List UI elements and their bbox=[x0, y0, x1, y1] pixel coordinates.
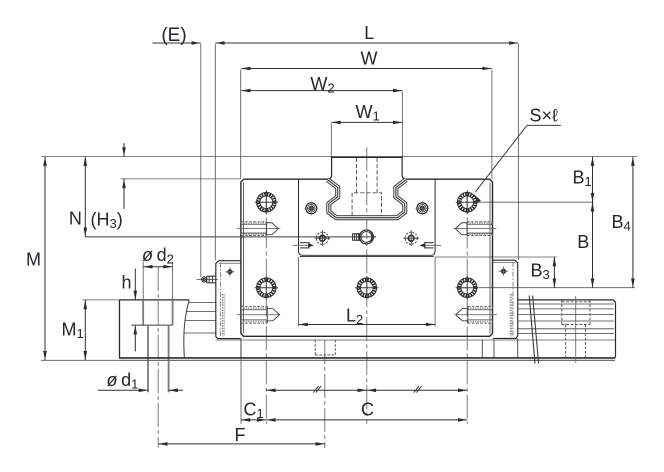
svg-text:L: L bbox=[364, 23, 374, 43]
tapped mounting hole SxL #3 bbox=[255, 276, 278, 299]
rail section: right side bbox=[402, 157, 406, 179]
extension line: W1/W2 right at rail edge bbox=[401, 92, 403, 157]
dimension M line bbox=[43, 157, 47, 361]
svg-text:F: F bbox=[235, 425, 246, 445]
side view: rail left end bbox=[119, 300, 121, 359]
side view: grease nipple left end bbox=[197, 276, 218, 283]
dimension C/2 right segment bbox=[367, 389, 467, 393]
second rail hole (hidden) under block bbox=[315, 340, 335, 355]
extension line: B/B4 bottom hole row bbox=[479, 287, 635, 289]
extension line: B3 top bbox=[436, 256, 557, 258]
extension line: base bottom (M/M1 bottom) bbox=[41, 359, 615, 361]
svg-text:(E): (E) bbox=[161, 25, 186, 46]
extension line: hole column right centreline bbox=[466, 191, 468, 424]
side view: left end plate seal texture bbox=[223, 294, 225, 336]
dimension d2 line bbox=[143, 265, 172, 269]
side view: right end plate outline bbox=[493, 260, 518, 338]
dimension d1 arrows bbox=[98, 389, 183, 393]
piping-port screw middle row #1 bbox=[315, 230, 331, 246]
centreline: rail axis bbox=[366, 147, 368, 424]
dimension h arrows bbox=[134, 269, 138, 352]
extension line: hole column left centreline bbox=[265, 191, 267, 424]
extension line: (E) at nipple tip bbox=[200, 44, 202, 277]
equality tick marks right bbox=[414, 386, 422, 392]
side view: left end plate screw (diamond) bbox=[225, 267, 234, 276]
plan view: block inner edge left bbox=[242, 183, 244, 334]
rail section: top surface bbox=[331, 156, 403, 158]
rail section: hidden bolt hole d1 right bbox=[376, 158, 378, 193]
base band: divider under right plate 1 bbox=[481, 340, 483, 358]
leader S x l bbox=[472, 125, 561, 202]
plan view: recess bottom line 2 bbox=[300, 255, 434, 257]
dimension C line bbox=[266, 418, 467, 422]
extension line: rail top at section (M1 top) bbox=[83, 299, 120, 301]
piping-port screw middle row #2 bbox=[403, 230, 419, 246]
base band: divider at right plate edge bbox=[517, 338, 519, 358]
extension line: N bottom / grease nipple centre line bbox=[85, 236, 376, 238]
rail section: left side bbox=[327, 157, 331, 179]
extension line: block-top plane (H3 bottom) bbox=[121, 178, 241, 180]
extension line: rail-top datum plane bbox=[41, 156, 637, 158]
svg-text:W: W bbox=[361, 49, 378, 69]
dimension L2 line bbox=[299, 323, 436, 327]
dimension (E) line bbox=[153, 41, 201, 45]
dimension W2 line bbox=[241, 89, 402, 93]
extension line: L right bbox=[517, 44, 519, 260]
section hole: counterbore d2 walls bbox=[143, 262, 172, 325]
extension line: block left edge to C1 bbox=[240, 339, 242, 424]
rail section: hidden bolt hole d1 left bbox=[356, 158, 358, 193]
extension line: B1 bottom hole row bbox=[479, 201, 594, 203]
dimension F line bbox=[158, 442, 325, 446]
extension line: W right bbox=[491, 70, 493, 179]
svg-text:(H3): (H3) bbox=[91, 209, 123, 231]
dimension M1 line bbox=[84, 300, 88, 360]
svg-text:h: h bbox=[121, 273, 131, 293]
dimension C1 line bbox=[241, 418, 266, 422]
dimension L line bbox=[215, 41, 518, 45]
grease nipple plan: head bbox=[359, 230, 373, 244]
side view: left end plate hidden lip bbox=[220, 263, 222, 338]
side port lower right (hidden) bbox=[455, 306, 498, 323]
svg-text:C: C bbox=[361, 400, 374, 420]
plan view: L2 extension right bbox=[434, 257, 436, 327]
side view: rail break diagonals bbox=[529, 296, 538, 364]
side view: rail groove lines right bbox=[518, 304, 614, 334]
side view: rail right end bbox=[615, 302, 617, 357]
side view: right end plate hidden lip bbox=[512, 262, 514, 337]
section hole: counterbore bottom (h depth) bbox=[131, 324, 172, 326]
base band: upper line bbox=[216, 339, 615, 341]
grease flow arrow left bbox=[293, 243, 314, 248]
side view: right end plate top inner line bbox=[493, 262, 515, 264]
end-plate screw upper #1 bbox=[304, 201, 318, 215]
dimension N line bbox=[84, 157, 88, 237]
grease flow arrow right bbox=[420, 243, 441, 248]
dimension W line bbox=[241, 67, 491, 71]
plan view: recess bottom line 1 bbox=[299, 251, 436, 255]
svg-text:N: N bbox=[69, 209, 82, 229]
centreline: sectioned rail hole bbox=[157, 267, 159, 448]
equality tick marks left bbox=[313, 386, 321, 392]
svg-text:B: B bbox=[577, 232, 589, 252]
tapped mounting hole SxL #5 bbox=[456, 276, 479, 299]
plan view: block outline bbox=[241, 179, 493, 336]
base band: bottom thick line bbox=[120, 357, 616, 359]
end seal contour band (outer) bbox=[328, 180, 406, 218]
third rail hole (hidden) right bbox=[562, 296, 590, 363]
side view: right end plate seal texture bbox=[510, 294, 512, 336]
side port lower left (hidden) bbox=[237, 306, 281, 323]
rail section: hidden counterbore d2 bbox=[352, 193, 381, 216]
grease nipple plan: centreline stub bbox=[373, 236, 376, 238]
extension line: W1 left at rail edge bbox=[330, 124, 332, 157]
plan view: L2 extension left bbox=[298, 257, 300, 327]
side port upper right (hidden) bbox=[453, 222, 496, 236]
extension line: L left at block end bbox=[214, 44, 216, 260]
plan view: block inner edge right bbox=[489, 183, 491, 334]
plan view: end-plate seam left bbox=[298, 179, 300, 251]
svg-text:S×ℓ: S×ℓ bbox=[530, 105, 559, 125]
end-plate screw upper #2 bbox=[415, 201, 429, 215]
centreline: second rail hole (F right) bbox=[324, 340, 326, 448]
dimension W1 line bbox=[331, 121, 402, 125]
dimension (H3) arrows bbox=[122, 143, 126, 209]
end seal contour band (middle line) bbox=[328, 180, 406, 218]
end seal contour band (hollow) bbox=[328, 180, 406, 218]
tapped mounting hole SxL #2 bbox=[456, 191, 479, 214]
dimension B4 line bbox=[631, 157, 635, 288]
base band: bottom thin line bbox=[120, 359, 615, 361]
tapped mounting hole SxL #1 bbox=[255, 191, 278, 214]
extension line: W left bbox=[240, 70, 242, 179]
side view: left end plate outline bbox=[216, 261, 241, 339]
side view: right end plate screw (diamond) bbox=[499, 267, 508, 276]
grease nipple plan: body thread bbox=[353, 233, 360, 241]
dimension B1 line bbox=[591, 157, 595, 203]
dimension B line bbox=[591, 202, 595, 288]
base band: block end divider left bbox=[240, 339, 242, 358]
plan view: end-plate seam right bbox=[434, 179, 436, 251]
side view: rail top right bbox=[518, 300, 616, 302]
side view: rail left end section top bbox=[120, 299, 190, 301]
svg-text:M: M bbox=[26, 250, 41, 270]
side view: rail break line (wavy) bbox=[184, 300, 189, 359]
base band: divider under right plate 2 bbox=[493, 340, 495, 358]
dimension B3 line bbox=[553, 257, 557, 288]
tapped mounting hole SxL #4 bbox=[355, 276, 378, 299]
dimension C/2 left segment bbox=[266, 389, 367, 393]
side view: rail edge lines at break bbox=[184, 302, 216, 333]
side view: left end plate top inner line bbox=[219, 262, 241, 264]
side port upper left (hidden) bbox=[237, 222, 280, 236]
section hole: through hole d1 walls bbox=[148, 325, 169, 392]
